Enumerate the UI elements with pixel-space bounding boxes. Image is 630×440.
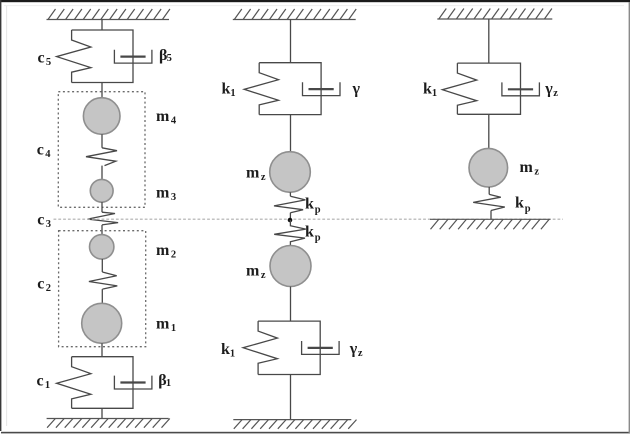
- damper B1 piston: [120, 381, 145, 383]
- ceiling support left: [47, 9, 170, 20]
- damper gamma piston: [309, 88, 334, 90]
- damper B5 cup: [114, 50, 151, 63]
- spring k1 bottom middle: [243, 321, 277, 374]
- border top: [0, 0, 630, 2]
- node junction dot: [288, 218, 293, 223]
- mass m3: [90, 179, 113, 202]
- spring c5: [57, 30, 91, 83]
- damper gamma-z piston right: [508, 88, 533, 90]
- wire spring c3 to mass m2: [101, 225, 103, 235]
- spring k1 top middle: [244, 63, 278, 115]
- dashed group box (m2,c2,m1): [59, 231, 146, 347]
- spring kp right: [473, 194, 505, 210]
- faint inner rule top: [4, 4, 624, 7]
- wire unit to mass mz right: [488, 114, 490, 148]
- wire m4 to spring c4: [101, 134, 103, 148]
- wire ceiling to unit k1/gamma-z right: [488, 19, 490, 63]
- ground support bottom middle: [233, 420, 356, 429]
- spring-damper unit frame (c1,B1): [72, 357, 133, 409]
- dashed group box (m4,c4,m3): [58, 92, 145, 208]
- wire spring to ground right: [490, 211, 492, 220]
- mass m2: [90, 235, 114, 259]
- wire mz lower to unit: [290, 287, 292, 322]
- wire from ceiling to unit c5/B5: [101, 20, 103, 31]
- mass m4: [83, 98, 120, 135]
- spring c3: [88, 212, 119, 225]
- spring kp lower middle: [274, 220, 306, 246]
- wire m1 to unit c1/B1: [101, 343, 103, 356]
- wire m2 to spring c2: [101, 259, 103, 272]
- spring c2: [89, 272, 117, 289]
- spring-damper unit frame (k1,gamma) top middle: [259, 63, 321, 115]
- spring-damper unit frame (c5,B5): [72, 30, 133, 83]
- wire unit to ground middle: [290, 375, 292, 420]
- wire unit to mass mz upper: [290, 115, 292, 152]
- wire unit to ground: [101, 408, 103, 418]
- wire ceiling to unit k1/gamma: [290, 20, 292, 63]
- spring c1: [57, 357, 91, 409]
- spring k1 right: [442, 63, 476, 114]
- wire spring c4 to mass m3: [101, 166, 103, 180]
- border left: [0, 0, 1, 431]
- wire spring c2 to mass m1: [101, 289, 103, 303]
- mass mz lower middle: [270, 246, 311, 287]
- damper gamma-z cup right: [502, 82, 540, 95]
- mass m1: [82, 303, 122, 343]
- wire mz to spring kp upper: [289, 192, 291, 196]
- mass mz right: [469, 148, 508, 187]
- static equilibrium dashed reference line: [54, 218, 564, 220]
- ground support bottom-left: [47, 419, 170, 428]
- wire mz to spring kp right: [488, 187, 490, 194]
- damper B1 cup: [114, 376, 151, 389]
- damper gamma-z cup bottom middle: [302, 341, 340, 354]
- spring c4: [86, 148, 117, 166]
- spring-damper unit frame (k1,gamma-z) right: [457, 63, 520, 114]
- damper B5 piston: [120, 55, 145, 57]
- svg-text:γ: γ: [352, 80, 361, 97]
- wire spring to node: [289, 213, 291, 220]
- ceiling support middle: [233, 9, 356, 20]
- faint inner rule left: [5, 6, 8, 426]
- spring-damper unit frame (k1,gamma-z) bottom middle: [258, 321, 320, 374]
- spring kp upper middle: [274, 196, 305, 213]
- border right: [629, 2, 630, 433]
- damper gamma cup: [303, 82, 341, 95]
- wire unit to mass m4: [101, 83, 103, 99]
- ceiling support right: [437, 9, 552, 20]
- mass mz upper middle: [270, 152, 311, 193]
- damper gamma-z piston bottom middle: [308, 347, 333, 349]
- wire m3 to spring c3: [101, 202, 103, 212]
- ground support right at reference line: [430, 219, 551, 229]
- border bottom: [1, 432, 630, 434]
